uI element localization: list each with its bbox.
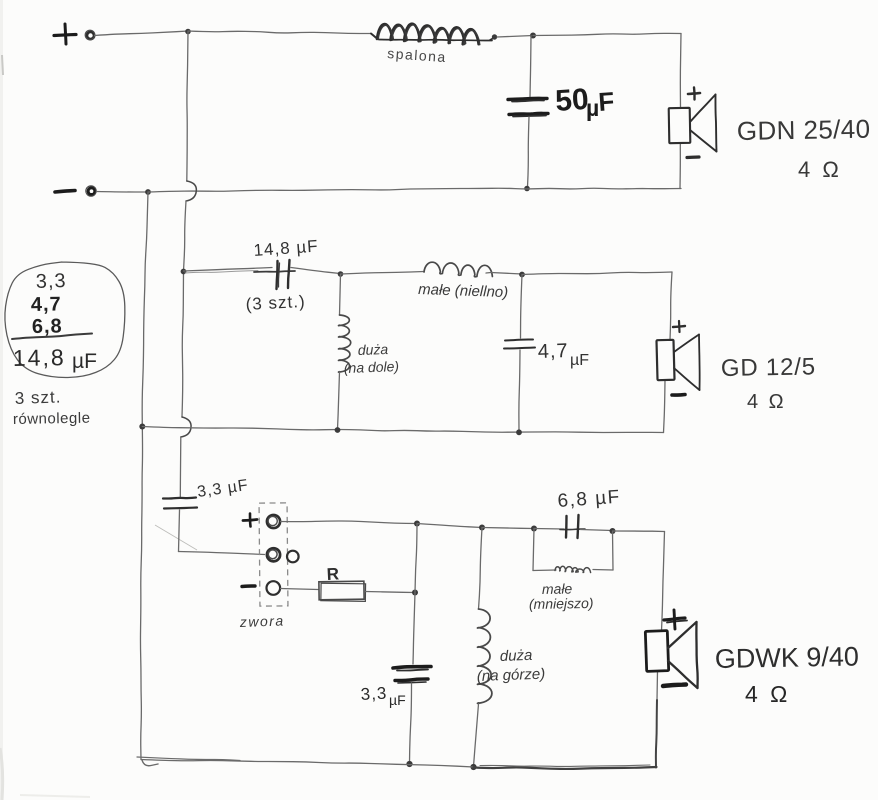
note blob outline [5,262,125,378]
capacitor C6 6,8uF plates [560,515,585,538]
wire R to node [366,592,416,593]
wire duza2 lower [474,704,479,767]
label 14,8 uF [253,237,319,260]
svg-text:R: R [326,564,339,584]
wire node to speaker GDN top [533,33,681,108]
resistor R1 [319,581,366,601]
jumper circle [287,551,299,563]
label R [326,564,339,584]
capacitor C5 3,3uF plates [393,667,431,684]
junction node rail C5 [406,761,412,767]
wire 6,8 bypass left [533,529,534,571]
svg-text:GDN 25/40: GDN 25/40 [737,114,871,146]
note 3 szt [14,387,61,408]
note 14,8 uF [13,344,97,373]
junction node minus [145,189,151,195]
terminal block dashed outline [259,503,288,606]
junction node rail duza2 [470,764,476,770]
capacitor C1 plates [508,98,548,116]
wire minus terminal to node [97,191,149,194]
terminal mid pad [267,548,280,561]
svg-text:F: F [597,86,615,117]
terminal plus pad [267,515,280,528]
wire male to node 4,7 [491,273,522,275]
label 3,3 uF bottom [360,684,405,708]
wire plus bus upper (with hop over minus rail) [184,32,197,272]
svg-text:GDWK 9/40: GDWK 9/40 [715,641,860,674]
wire node to cap 6,8 [534,528,564,531]
junction node 6,8 left [531,526,537,532]
wire node to inductor male [341,272,425,275]
label 4 ohm top [798,157,842,182]
wire node to cap 14,8 [184,268,273,274]
svg-text:4,7: 4,7 [537,340,569,363]
svg-text:µF: µF [389,692,406,708]
wire 6,8 bypass bottom a [533,569,556,572]
wire middle minus rail [142,427,663,433]
capacitor C2 14,8uF plates [254,260,295,289]
svg-text:3 szt.: 3 szt. [14,387,61,408]
wire terminal minus to R [281,589,319,590]
label male small [529,580,594,612]
label 4,7 uF [537,340,589,369]
svg-text:4,7: 4,7 [31,293,62,316]
wire duza branch lower [338,372,340,429]
junction node 4,7 bottom [516,429,522,435]
wire cap 6,8 to node [581,530,613,531]
label 4 ohm mid [747,391,786,413]
label GDWK 9/40 [715,641,860,674]
svg-text:duża: duża [358,341,389,358]
wire cap 3,3 to terminal [179,510,265,555]
svg-text:równolegle: równolegle [13,410,91,428]
plus input terminal [54,24,95,44]
svg-text:6,8: 6,8 [32,315,63,338]
note rownolegle [13,410,91,428]
label GDN 25/40 [737,114,871,146]
wire bottom rail [137,757,657,769]
junction node top-left [185,29,191,35]
junction node 6,8 right [610,528,616,534]
wire bottom top rail b [482,528,534,529]
note 3,3 [35,270,67,293]
wire duza branch upper [340,274,341,315]
note sum line [12,334,92,340]
wire 6,8 bypass bottom b [593,569,613,572]
svg-text:3,3: 3,3 [360,684,388,704]
speaker U1 GDN 25/40 [669,88,717,158]
speaker U2 GD 12/5 [656,321,699,395]
wire cap C5 to rail [410,683,412,763]
inductor L2 male [424,262,492,277]
junction node mid-left [181,269,187,275]
inductor L3 duza [339,315,351,372]
label male [418,281,509,301]
terminal minus pad [267,581,281,595]
svg-text:4 Ω: 4 Ω [745,681,790,707]
wire 4,7 branch lower [519,350,520,431]
wire terminal plus to node [281,521,418,524]
speaker U3 GDWK 9/40 [645,610,697,688]
svg-text:6,8 µF: 6,8 µF [557,487,622,512]
label terminal minus [242,584,255,588]
svg-text:małe (niellno): małe (niellno) [418,281,509,301]
inductor L1 (spalona) [371,24,497,66]
junction node R-right [412,590,418,596]
junction node duza top [338,271,344,277]
svg-text:duża: duża [500,647,533,665]
svg-text:(na dole): (na dole) [344,358,400,376]
wire plus bus middle (with hop over mid rail) [180,271,191,497]
label duza [344,341,400,376]
label GD 12/5 [721,353,816,382]
note 4,7 [31,293,62,316]
inductor L4 male small [555,566,591,572]
label 50uF [554,83,615,121]
wire 50uF branch lower [528,117,530,187]
svg-text:zwora: zwora [239,612,285,630]
capacitor C4 3,3uF plates [163,498,197,509]
wire bottom top rail a [417,524,482,528]
label zwora [239,612,285,630]
minus input terminal [55,186,96,196]
svg-text:50: 50 [554,83,590,118]
junction node 50uF [530,33,536,39]
junction node bottom of 50uF [524,186,530,192]
svg-text:4 Ω: 4 Ω [747,391,786,413]
wire node to speaker GD [522,272,672,340]
label 6,8 uF [557,487,622,512]
label 4 ohm bottom [745,681,790,707]
junction node duza bottom [335,427,341,433]
svg-text:GD 12/5: GD 12/5 [721,353,816,382]
svg-text:µF: µF [570,352,589,369]
wire plus terminal to node [95,31,189,36]
wire 4,7 branch upper [521,275,523,339]
svg-text:14,8: 14,8 [13,344,66,371]
wire speaker GDWK lower [656,671,658,768]
wire duza2 upper [479,528,483,610]
wire speaker GD lower [664,380,666,433]
junction node duza2 top [479,525,485,531]
label duza2 [477,647,546,685]
wire 50uF branch upper [530,36,531,98]
wire speaker GDN vertical [679,108,682,189]
wire 6,8 bypass right [612,531,615,570]
junction node R-top [414,521,420,527]
capacitor C3 4,7uF plates [504,340,535,349]
svg-text:(mniejszo): (mniejszo) [529,595,594,612]
wire node vertical R [413,524,417,665]
svg-text:(3 szt.): (3 szt.) [245,292,306,314]
wire minus bus [140,192,148,760]
svg-text:4 Ω: 4 Ω [798,157,842,182]
junction node mid-rail-left [139,424,145,430]
wire inductor to cap node [497,36,533,38]
svg-text:3,3: 3,3 [35,270,67,293]
label 3 szt paren [245,292,306,314]
wire node to inductor [188,31,371,34]
label terminal plus [243,514,257,527]
junction node 4,7 top [519,272,525,278]
wire minus rail top section [148,188,681,192]
svg-text:µF: µF [72,350,97,373]
svg-text:(na górze): (na górze) [477,666,546,685]
wire cap to node duza [291,268,340,274]
inductor L5 duza2 [478,609,492,703]
label 3,3 uF left [196,477,250,501]
note 6,8 [32,315,63,338]
wire node to speaker GDWK top [613,531,665,631]
